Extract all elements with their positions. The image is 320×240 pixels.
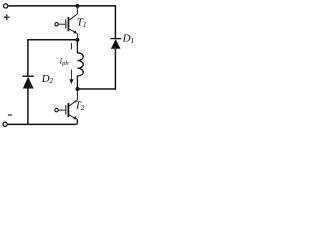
transistor T2 emitter lead with arrow <box>69 115 75 119</box>
transistor T2 gate terminal circle <box>55 108 59 112</box>
transistor T2 gate bar <box>65 105 67 114</box>
terminal minus (bottom-left) <box>3 122 7 126</box>
terminal plus (top-left) <box>4 4 8 8</box>
transistor T1 gate terminal circle <box>55 22 59 26</box>
wire: right vertical lower + to node B <box>78 49 116 89</box>
transistor T1 collector lead <box>69 7 77 21</box>
junction dot (top rail / T1 collector) <box>75 4 79 8</box>
transistor T1 gate lead <box>58 23 65 25</box>
wire: node B to T2 collector <box>69 89 77 106</box>
transistor T1 body bar <box>67 17 69 31</box>
svg-text:D2: D2 <box>41 73 54 85</box>
wire: right vertical upper (to D1 cathode) <box>114 6 116 39</box>
wire: left vertical upper (node A to D2 cathode) <box>27 39 29 76</box>
inductor phase winding <box>77 40 83 89</box>
svg-text:T2: T2 <box>75 100 85 112</box>
current arrow i_ph <box>70 43 72 50</box>
wire: T2 emitter to bottom rail (rounded corner) <box>75 119 77 124</box>
plus sign <box>4 14 10 20</box>
transistor T1 gate bar <box>65 19 67 28</box>
wire: bottom rail <box>7 123 75 125</box>
node B junction dot <box>76 87 80 91</box>
svg-text:iph: iph <box>60 55 70 67</box>
wire: top rail <box>8 5 116 7</box>
diode D1 triangle <box>111 39 121 49</box>
svg-text:T1: T1 <box>77 17 87 29</box>
diode D2 cathode bar <box>22 75 33 77</box>
svg-text:D1: D1 <box>122 33 135 45</box>
node A junction dot <box>75 38 79 42</box>
diode D1 cathode bar <box>110 38 121 40</box>
wire: phase node A horizontal <box>28 39 78 41</box>
minus sign <box>8 114 12 116</box>
diode D2 triangle <box>23 77 34 89</box>
transistor T1 emitter lead with arrow <box>69 29 75 33</box>
transistor T2 body bar <box>67 103 69 117</box>
transistor T2 gate lead <box>58 109 65 111</box>
wire: left vertical lower (D2 anode to bottom rail) <box>27 88 29 124</box>
